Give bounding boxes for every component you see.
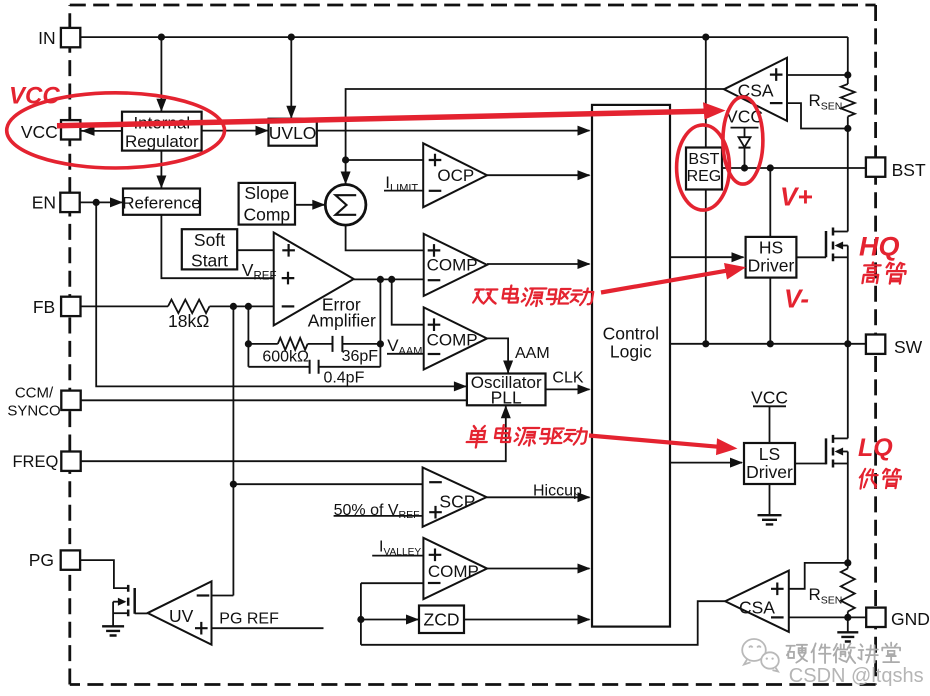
wire BST rail [722, 167, 866, 169]
wire Reference to Error Amplifier VREF [161, 215, 273, 278]
block ZCD [419, 606, 464, 634]
wire COMP1 output to Control Logic [487, 263, 590, 265]
svg-text:PG: PG [29, 550, 54, 570]
net PG REF to UV plus [212, 627, 324, 629]
wire HQ source column [847, 246, 849, 344]
wire VCC to LS Driver [769, 406, 771, 443]
transistor PG open-drain FET [128, 585, 135, 616]
svg-text:Regulator: Regulator [125, 132, 199, 151]
watermark text hardware-micro-lecture-hall (Chinese, gray) [786, 645, 807, 663]
wire CSA1 plus input [787, 74, 848, 76]
svg-text:36pF: 36pF [342, 348, 379, 365]
pin CCM [61, 391, 80, 410]
block LS Driver [744, 443, 795, 484]
block Reference [123, 189, 200, 215]
wire UVLO to Control Logic [317, 130, 590, 132]
wire PG pin to PG FET drain [80, 560, 128, 588]
svg-text:SW: SW [894, 337, 923, 357]
comparator UV power good [148, 581, 212, 644]
node junction dots [158, 34, 165, 41]
ground LS Driver [758, 515, 782, 524]
wire EN branch to Oscillator [96, 202, 466, 386]
svg-text:IN: IN [38, 28, 56, 48]
wire SW rail [670, 343, 866, 345]
annotation red ellipse VCC regulator [7, 93, 225, 168]
wire Internal Regulator to UVLO [202, 130, 268, 132]
wire VCC diode branch [744, 128, 746, 138]
svg-text:COMP: COMP [428, 562, 479, 581]
resistor 18k [168, 300, 210, 314]
pin IN [61, 28, 80, 47]
wire BST node to HS Driver supply [769, 168, 771, 237]
wire LQ body column [847, 452, 849, 563]
wire HS Driver return to SW [769, 278, 771, 344]
pin VCC [61, 120, 80, 139]
svg-text:BST: BST [688, 151, 719, 168]
pin PG [61, 550, 80, 569]
current sense amp CSA1 top [724, 58, 787, 121]
wire CSA1 output to current sense bus [346, 89, 724, 184]
comparator COMP1 PWM [424, 234, 487, 296]
svg-text:VCC: VCC [9, 83, 60, 110]
block UVLO [269, 119, 317, 146]
svg-text:ZCD: ZCD [424, 609, 460, 629]
annotation red ellipse VCC diode [723, 97, 763, 184]
svg-text:SYNCO: SYNCO [7, 403, 60, 420]
svg-text:Soft: Soft [194, 230, 225, 250]
svg-text:UVLO: UVLO [269, 123, 317, 143]
svg-text:CSA: CSA [739, 598, 775, 618]
diode VCC to BST [739, 137, 751, 147]
net VCC underline (LS driver) [753, 405, 786, 407]
svg-text:V+: V+ [780, 182, 813, 212]
svg-text:GND: GND [891, 609, 930, 629]
svg-text:Control: Control [603, 323, 659, 343]
wire CSA2 minus input [789, 616, 848, 618]
wire EA output to feedback network [379, 279, 381, 344]
svg-text:FB: FB [33, 297, 55, 317]
annotation red ellipse BST REG [677, 125, 730, 210]
wire FB input [81, 305, 168, 307]
wire Control Logic to LS Driver [670, 462, 742, 464]
svg-text:OCP: OCP [437, 166, 474, 185]
wire IN to UVLO top [290, 37, 292, 119]
svg-text:UV: UV [169, 606, 194, 626]
svg-text:Slope: Slope [244, 183, 289, 203]
svg-text:Hiccup: Hiccup [533, 482, 582, 499]
wire Slope Comp to summer [295, 204, 324, 206]
pin FB [61, 297, 80, 316]
block Oscillator PLL [467, 374, 546, 406]
ground PG FET [102, 626, 124, 635]
annotation red text single-supply-drive (Chinese) [466, 426, 489, 448]
wire SCP output Hiccup to Control Logic [487, 496, 590, 498]
annotation red arrow dual supply drive [601, 271, 726, 293]
wire ZCD branch vertical [360, 583, 362, 645]
wire ZCD output to Control Logic [464, 619, 590, 621]
svg-text:COMP: COMP [427, 330, 478, 349]
svg-text:VCC: VCC [21, 122, 58, 142]
wire COMP3 minus [361, 582, 424, 584]
svg-text:EN: EN [32, 192, 56, 212]
wire OCP plus input [346, 159, 424, 161]
wire UV minus [212, 595, 234, 597]
transistor HQ high-side MOSFET [826, 228, 833, 262]
wire EN to Reference [80, 201, 122, 203]
net VAAM underline to COMP2 minus [387, 353, 424, 355]
wire LQ source to RSEN2 [847, 563, 849, 569]
resistor 600k [278, 338, 308, 350]
pin SW [866, 335, 885, 354]
wire CSA2 output to ZCD/COMP3 [361, 601, 725, 645]
wire FB sense branch down [232, 306, 234, 595]
pin GND [866, 608, 885, 627]
current sense amp CSA2 bottom [725, 571, 789, 632]
wire CSA2 plus input [789, 563, 848, 589]
comparator OCP [423, 143, 487, 207]
annotation red text HQ gaoguan (Chinese) [862, 262, 882, 283]
svg-text:Driver: Driver [746, 462, 793, 482]
wire feedback right branch [379, 344, 381, 367]
svg-text:AAM: AAM [515, 345, 550, 362]
net 50% VREF underline to SCP plus [334, 515, 423, 517]
comparator COMP3 valley [423, 538, 487, 599]
resistor RSEN1 [841, 84, 855, 116]
comparator COMP2 AAM [424, 307, 487, 369]
capacitor 0.4pF [310, 360, 319, 374]
svg-text:CLK: CLK [552, 370, 583, 387]
wire Internal Regulator to Reference [160, 151, 162, 188]
op-amp Error Amplifier [274, 233, 354, 326]
wire CCM/SYNCO to Oscillator [81, 399, 467, 401]
svg-text:PG REF: PG REF [219, 610, 279, 627]
svg-text:Start: Start [191, 251, 228, 271]
pin BST [866, 157, 885, 176]
svg-text:REG: REG [687, 168, 722, 185]
wire RSEN1 bottom to HQ drain [847, 117, 849, 232]
wire COMP3 output to Control Logic [487, 568, 589, 570]
pin FREQ [61, 452, 80, 471]
watermark wechat logo [742, 639, 779, 672]
net VCC underline (diode) [731, 127, 759, 129]
block Slope Comp [239, 183, 295, 225]
svg-text:LQ: LQ [858, 434, 893, 462]
wire GND node to GND pin [848, 616, 866, 618]
svg-text:0.4pF: 0.4pF [323, 369, 364, 386]
IC boundary dashed border [70, 4, 876, 7]
pin EN [60, 193, 79, 212]
annotation red arrow single supply drive [589, 436, 718, 447]
svg-text:600kΩ: 600kΩ [262, 349, 309, 366]
block Internal Regulator [122, 112, 202, 151]
annotation red text LQ diguan (Chinese) [858, 469, 879, 489]
wire Control Logic to HS Driver [670, 256, 744, 258]
annotation red text dual-supply-drive (Chinese) [473, 290, 498, 304]
svg-text:CSDN @ltqshs: CSDN @ltqshs [789, 665, 924, 687]
svg-text:FREQ: FREQ [12, 453, 58, 471]
resistor RSEN2 [841, 568, 855, 611]
wire LS Driver to ground [769, 484, 771, 515]
wire IN rail top [80, 36, 848, 38]
wire IN rail down to CSA/RSEN [847, 37, 849, 84]
wire Internal Regulator to VCC pin [82, 130, 123, 132]
wire COMP2 output AAM to Oscillator [487, 338, 508, 372]
wire CSA1 minus input [787, 103, 848, 128]
svg-text:SCP: SCP [439, 491, 475, 511]
wire IN to Internal Regulator [160, 37, 162, 112]
svg-text:BST: BST [892, 160, 926, 180]
summer sigma [325, 185, 366, 226]
wire Oscillator CLK to Control Logic [546, 388, 590, 390]
block Soft Start [182, 229, 237, 269]
net IVALLEY underline to COMP3 plus [372, 555, 423, 557]
svg-text:HQ: HQ [859, 232, 900, 262]
block HS Driver [746, 237, 797, 278]
wire feedback left branch [247, 306, 249, 366]
wire OCP output to Control Logic [487, 174, 590, 176]
wire Soft Start to Error Amplifier [237, 249, 274, 251]
wire GND node to ground [847, 617, 849, 631]
annotation red arrow VCC to CSA [57, 111, 705, 126]
svg-text:Amplifier: Amplifier [308, 310, 376, 330]
svg-text:Comp: Comp [243, 204, 290, 224]
wire feedback row 0.4pF [248, 366, 309, 368]
wire EA output to COMP2 plus [392, 279, 424, 324]
svg-text:18kΩ: 18kΩ [168, 311, 209, 331]
wire into ZCD [361, 619, 418, 621]
svg-text:PLL: PLL [491, 388, 522, 408]
block BST REG [686, 148, 722, 190]
ground GND node [837, 632, 858, 641]
net ILIMIT underline to OCP minus [384, 190, 423, 192]
svg-text:Driver: Driver [748, 256, 795, 276]
svg-text:Logic: Logic [610, 342, 652, 362]
svg-text:Reference: Reference [122, 194, 200, 213]
transistor LQ low-side MOSFET [826, 435, 833, 468]
wire to SCP minus [233, 483, 422, 485]
wire feedback row 600k/36pF [248, 343, 277, 345]
svg-text:CCM/: CCM/ [15, 384, 54, 401]
comparator SCP [423, 468, 487, 527]
svg-text:V-: V- [784, 284, 809, 314]
wire RSEN2 to GND node [847, 612, 849, 618]
wire HQ drain column [847, 344, 849, 439]
svg-text:VCC: VCC [751, 388, 788, 408]
wire Error Amplifier output [354, 278, 424, 280]
wire BST REG output to SW [705, 190, 707, 344]
block Control Logic [592, 105, 670, 627]
wire IN to BST REG [705, 37, 707, 147]
wire summer to COMP1 plus [346, 225, 424, 250]
capacitor 36pF [333, 336, 343, 352]
svg-text:COMP: COMP [427, 256, 478, 275]
wire FREQ to Oscillator [81, 406, 506, 461]
